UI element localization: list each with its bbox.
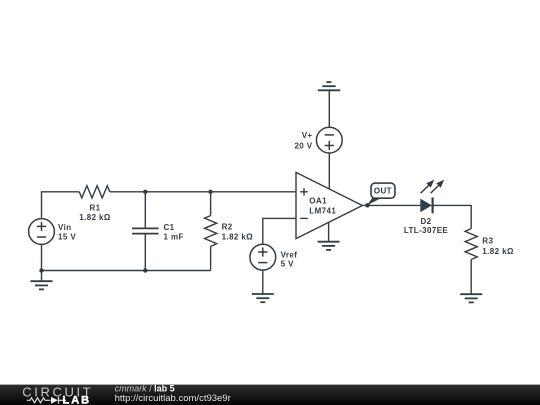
wire: op-amp negative supply stem [328, 222, 330, 241]
svg-text:D2: D2 [420, 217, 431, 226]
wire: C1 bottom lead [144, 234, 146, 271]
svg-text:R1: R1 [89, 204, 100, 213]
node junction: output node [365, 203, 370, 208]
LED D2 emission arrow 2 [431, 180, 445, 193]
wire: V+ source to op-amp positive supply [328, 153, 330, 189]
svg-text:Vin: Vin [58, 223, 72, 232]
wire: Vin top to R1 [42, 192, 80, 218]
ground at op-amp [318, 242, 340, 250]
voltage source V+ [316, 127, 342, 153]
svg-text:LTL-307EE: LTL-307EE [404, 226, 449, 235]
wire: R1 to op-amp non-inverting input [110, 191, 296, 193]
wire: R2 bottom lead [210, 246, 212, 270]
wire: R3 bottom to ground [470, 260, 472, 295]
CircuitLab logo resistor-diode glyph [27, 397, 66, 404]
ground at Vref [252, 294, 274, 302]
svg-text:1 mF: 1 mF [164, 233, 184, 242]
resistor R3 [465, 229, 477, 260]
wire: R2 top lead [210, 192, 212, 216]
svg-text:LAB: LAB [63, 394, 92, 405]
svg-text:Vref: Vref [281, 251, 298, 260]
power flag ground at V+ (inverted) [318, 82, 340, 90]
svg-text:20 V: 20 V [294, 142, 312, 151]
wire: Vref to op-amp inverting input [263, 218, 296, 244]
node junction: R2 top [208, 190, 212, 194]
svg-text:http://circuitlab.com/ct93e9r: http://circuitlab.com/ct93e9r [115, 393, 231, 404]
LED D2 emission arrow 1 [421, 180, 435, 193]
footer bar [0, 385, 540, 405]
node junction: C1 top [143, 190, 147, 194]
resistor R2 [205, 216, 217, 247]
wire: Vin bottom to ground node [41, 244, 43, 270]
wire: LED cathode to R3 [433, 205, 472, 228]
resistor R1 [79, 186, 110, 198]
node junction: Vin bottom [39, 268, 43, 272]
wire: top ground to V+ source [328, 90, 330, 127]
wire: bottom rail [42, 270, 211, 272]
LED D2 [420, 198, 432, 214]
svg-text:V+: V+ [302, 131, 313, 140]
capacitor C1 [132, 228, 159, 233]
node flag OUT [367, 183, 395, 205]
svg-text:R2: R2 [222, 223, 233, 232]
svg-text:1.82 kΩ: 1.82 kΩ [482, 247, 514, 256]
svg-text:C1: C1 [164, 223, 175, 232]
voltage source Vin [29, 219, 55, 245]
wire: op-amp output to LED anode [362, 204, 420, 206]
svg-text:1.82 kΩ: 1.82 kΩ [222, 232, 254, 241]
svg-text:OUT: OUT [374, 186, 392, 195]
wire: C1 top lead [144, 192, 146, 229]
ground at Vin [31, 271, 53, 290]
wire: Vref bottom to ground [262, 270, 264, 294]
node junction: C1 bottom [143, 268, 147, 272]
svg-text:LM741: LM741 [309, 206, 336, 215]
svg-text:15 V: 15 V [58, 233, 76, 242]
op-amp OA1 [296, 172, 362, 238]
svg-text:5 V: 5 V [281, 260, 294, 269]
svg-text:OA1: OA1 [309, 197, 327, 206]
svg-text:1.82 kΩ: 1.82 kΩ [79, 213, 111, 222]
svg-text:R3: R3 [482, 237, 493, 246]
svg-text:cmmark / lab 5: cmmark / lab 5 [115, 383, 175, 393]
ground at R3 [460, 294, 482, 302]
voltage source Vref [250, 244, 276, 270]
